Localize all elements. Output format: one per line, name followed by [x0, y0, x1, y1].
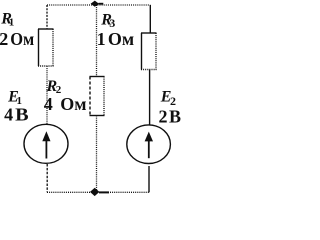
svg-text:1: 1 [9, 17, 15, 29]
svg-text:1: 1 [97, 29, 106, 49]
svg-text:4: 4 [4, 105, 13, 125]
svg-text:Ом: Ом [60, 94, 86, 114]
source E2 [127, 125, 171, 164]
svg-text:2: 2 [0, 29, 8, 49]
node bottom junction [90, 188, 109, 196]
resistor R2 [90, 77, 105, 116]
wire left middle segment [46, 66, 48, 124]
wire bottom horizontal [47, 191, 150, 193]
resistor R1 [38, 29, 54, 66]
resistor R3 [141, 33, 157, 70]
wire left top segment [46, 5, 48, 29]
wire top horizontal [47, 4, 150, 6]
source E1 [24, 124, 68, 163]
wire middle bottom segment [96, 116, 98, 193]
wire right top segment [149, 5, 151, 33]
svg-text:Ом: Ом [10, 29, 34, 49]
svg-text:2: 2 [159, 107, 168, 127]
wire left bottom segment [46, 164, 48, 192]
svg-text:4: 4 [44, 94, 53, 114]
wire right bottom segment [148, 166, 150, 192]
node top junction [91, 1, 104, 7]
svg-text:В: В [169, 107, 181, 127]
wire right middle segment [149, 70, 151, 126]
svg-text:Ом: Ом [108, 29, 134, 49]
svg-text:В: В [15, 105, 29, 125]
wire middle top segment [96, 5, 98, 77]
